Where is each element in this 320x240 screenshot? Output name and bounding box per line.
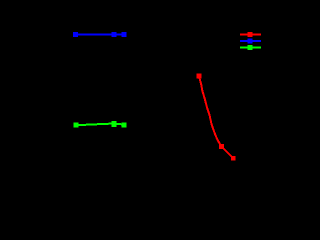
series blue: marker point 2	[111, 32, 116, 37]
legend entry blue: sample marker	[248, 39, 253, 44]
series red: curve	[199, 76, 233, 158]
series red: marker point 3	[231, 156, 236, 161]
legend entry green: sample marker	[248, 45, 253, 50]
series blue: marker point 3	[122, 32, 127, 37]
legend entry blue: sample line	[240, 40, 261, 42]
legend entry green: sample line	[240, 47, 261, 49]
series green: line	[76, 124, 124, 126]
series red: marker point 1	[197, 74, 202, 79]
series green: marker point 2	[112, 121, 117, 127]
series green: marker point 3	[122, 123, 127, 128]
series blue: marker point 1	[73, 32, 78, 37]
legend entry red: sample line	[240, 33, 261, 35]
series blue: line	[75, 33, 124, 35]
series red: marker point 2	[219, 144, 224, 149]
series green: marker point 1	[74, 123, 79, 128]
legend entry red: sample marker	[248, 32, 253, 37]
plot background	[0, 0, 280, 197]
